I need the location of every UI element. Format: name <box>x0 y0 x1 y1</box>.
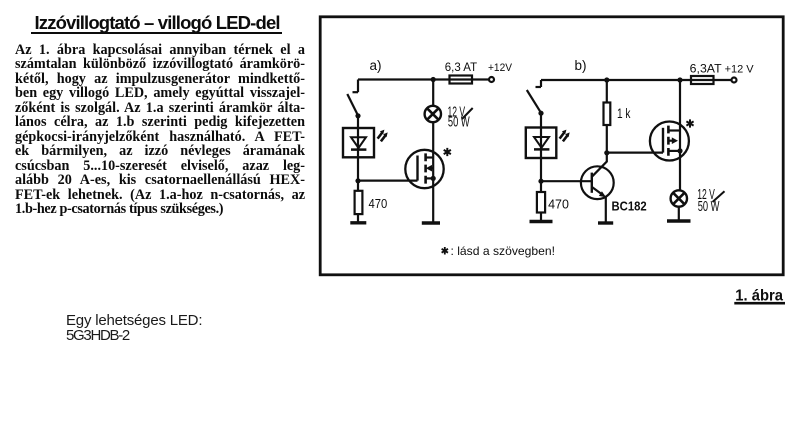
svg-text:1. ábra: 1. ábra <box>735 287 783 304</box>
transistor Q1 BC182 <box>581 153 614 222</box>
wire: junction to base <box>541 180 592 182</box>
figure frame <box>320 17 783 275</box>
wire: node to FET gate (b) <box>607 152 663 154</box>
label 12V/50W (a) <box>448 104 470 130</box>
svg-text:50 W: 50 W <box>698 199 720 215</box>
ground: under LA2 <box>667 219 691 222</box>
node: FET branch top <box>677 77 682 82</box>
lamp LA2 12V/50W <box>671 190 687 206</box>
svg-text:470: 470 <box>369 196 388 211</box>
svg-text:470: 470 <box>548 196 569 211</box>
wire: node to lamp a) <box>432 80 434 107</box>
svg-text:6,3AT: 6,3AT <box>690 62 723 76</box>
wire: top node into FET b) <box>679 80 681 190</box>
node: gate junction a) <box>355 178 360 183</box>
svg-text:50 W: 50 W <box>448 115 470 131</box>
flashing LED D1 <box>343 128 374 181</box>
wire: a) top supply rail <box>358 78 450 80</box>
svg-text:BC182: BC182 <box>612 199 647 214</box>
body paragraph <box>15 43 305 216</box>
fuse F2 6,3AT <box>691 76 714 84</box>
resistor R3 470 (b) <box>537 181 545 220</box>
asterisk marker (a) <box>444 148 451 156</box>
wire: switch to LED box <box>357 116 359 128</box>
MOSFET T2 (p-channel) <box>650 122 689 161</box>
LED suggestion note <box>66 313 202 344</box>
switch S2 <box>527 80 541 113</box>
svg-text:b): b) <box>575 58 587 73</box>
fuse F1 6,3AT <box>450 76 473 84</box>
wire: lamp b) to ground <box>678 207 680 220</box>
slash of 12V/50W (b) <box>713 191 725 202</box>
label 12V/50W (b) <box>697 187 719 215</box>
flash arrows of D2 <box>560 130 570 142</box>
wire: fuse to terminal (b) <box>714 79 732 81</box>
ground: under T1 <box>422 221 440 224</box>
+12V terminal <box>489 77 494 82</box>
node: 1k branch top <box>604 77 609 82</box>
+12V terminal (b) <box>732 78 737 83</box>
node: switch to LED <box>355 113 360 118</box>
ground: under R3 <box>530 220 553 223</box>
flash arrows of D1 <box>378 130 388 142</box>
svg-text:: lásd a szövegben!: : lásd a szövegben! <box>451 244 556 258</box>
node: switch to LED (b) <box>538 111 543 116</box>
lamp LA1 12V/50W <box>425 106 441 122</box>
svg-text:+12V: +12V <box>488 62 513 74</box>
caption underline <box>734 302 785 305</box>
flashing LED D2 <box>526 128 557 182</box>
footnote asterisk <box>442 247 448 255</box>
switch S1 <box>347 80 358 116</box>
slash of 12V/50W (a) <box>462 108 473 119</box>
svg-text:1 k: 1 k <box>617 106 631 121</box>
ground: under R1 <box>350 221 366 224</box>
svg-text:a): a) <box>370 58 382 73</box>
svg-text:+12 V: +12 V <box>725 64 755 76</box>
wire: junction to gate <box>358 180 418 182</box>
wire: fuse to +12V terminal <box>472 78 489 80</box>
wire: switch to LED box (b) <box>540 113 542 127</box>
resistor R4 1k <box>604 80 611 153</box>
wire: lamp to FET drain <box>432 122 434 150</box>
MOSFET T1 (n-channel) <box>405 150 443 222</box>
ground: under Q1 emitter <box>598 221 613 224</box>
node: 1k bottom / gate node <box>604 150 609 155</box>
node: base junction b) <box>538 179 543 184</box>
wire: b) top supply rail <box>541 79 691 81</box>
svg-text:6,3 AT: 6,3 AT <box>445 60 478 74</box>
article title <box>35 12 280 34</box>
resistor R1 470 <box>355 181 363 222</box>
node: a) lamp branch junction <box>431 77 436 82</box>
asterisk marker (b) <box>686 119 693 127</box>
